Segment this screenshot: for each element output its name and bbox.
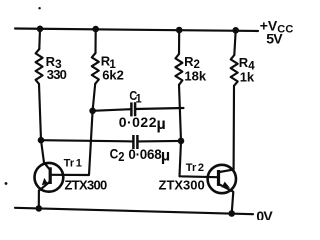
svg-text:1: 1	[136, 93, 143, 106]
svg-text:ZTX300: ZTX300	[159, 178, 205, 193]
svg-text:1k: 1k	[240, 70, 255, 85]
svg-text:18k: 18k	[184, 69, 206, 84]
svg-text:ZTX300: ZTX300	[65, 178, 108, 193]
svg-text:Tr1: Tr1	[64, 158, 83, 170]
svg-text:5V: 5V	[266, 31, 283, 47]
svg-text:0·022µ: 0·022µ	[119, 114, 167, 133]
svg-text:C2: C2	[110, 146, 125, 164]
svg-text:0V: 0V	[256, 208, 273, 220]
svg-text:330: 330	[47, 67, 67, 82]
svg-text:6k2: 6k2	[102, 68, 124, 83]
svg-text:Tr2: Tr2	[186, 162, 205, 174]
